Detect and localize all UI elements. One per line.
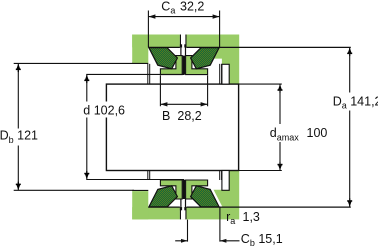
inner ring left piece bottom (L shape) [160, 180, 182, 199]
shaft cross-section rectangle [106, 84, 238, 170]
sleeve edge lines bottom right [220, 171, 222, 181]
roller bottom right [191, 186, 220, 207]
text mask Db [0, 129, 36, 146]
text mask Da [331, 93, 378, 111]
dimension d: reference lines [86, 74, 184, 179]
svg-text:Ca32,2: Ca32,2 [161, 0, 204, 15]
bottom notch thickened edge feet [180, 207, 182, 210]
svg-text:Cb 15,1: Cb 15,1 [241, 232, 283, 247]
roller top right [191, 48, 220, 69]
sleeve edge lines bottom left [148, 171, 150, 181]
left block bottom edge [132, 62, 148, 64]
dimension B: extension lines [160, 75, 207, 106]
bearing bottom slab (light green) [132, 207, 239, 219]
bottom notch side edges [180, 207, 186, 219]
text mask damax [268, 124, 326, 142]
dimension Ca: line with arrows [148, 16, 219, 18]
inner ring face ticks top [181, 47, 186, 55]
bottom slab top edge line + Da bottom reference line [148, 206, 350, 208]
top notch side edges [180, 35, 186, 48]
top center notch (white) [180, 35, 187, 48]
inner ring right piece bottom (L shape) [186, 180, 208, 199]
svg-text:d 102,6: d 102,6 [83, 103, 125, 117]
abutment step rect bottom right (white) [222, 171, 229, 191]
dimension d: vertical line with arrows [86, 74, 88, 179]
dimension B: line with arrows [160, 103, 207, 105]
dimension Db: vertical line with arrows [17, 63, 19, 190]
bearing left spacer block bottom [132, 191, 148, 219]
dimension Cb: extension lines [188, 207, 220, 241]
text mask d [82, 102, 126, 118]
dimension Ca: extension lines [148, 11, 219, 48]
bearing right wedge bottom [214, 190, 230, 207]
bearing left spacer block top [132, 35, 148, 64]
svg-text:Db 121: Db 121 [0, 129, 38, 145]
svg-text:Da 141,2: Da 141,2 [333, 94, 378, 110]
center gap bottom (black) [183, 180, 186, 199]
inner ring left piece top (L shape) [160, 56, 182, 75]
outer washer bottom edge line + Da top reference line [148, 46, 350, 48]
dimension damax: vertical line with arrows [279, 84, 281, 170]
bearing right housing column top [229, 47, 240, 84]
bearing outer washer top slab (light green) [132, 35, 239, 48]
abutment step rect top right (white) [222, 64, 229, 84]
center gap top (black) [183, 56, 186, 75]
roller bottom left [149, 186, 178, 207]
dimension Db: reference lines [14, 63, 134, 190]
inner ring face ticks bottom [181, 199, 186, 207]
left block top edge (bottom assembly) [132, 189, 148, 191]
bearing right housing column bottom [229, 171, 240, 208]
sleeve edge lines top right [220, 64, 222, 84]
top notch thickened edge feet [180, 44, 182, 47]
svg-text:B28,2: B28,2 [162, 109, 202, 123]
bearing right wedge top [213, 47, 230, 64]
dimension Da: vertical line with arrows [349, 47, 351, 207]
dimension damax: reference lines [239, 84, 282, 170]
inner ring right piece top (L shape) [186, 56, 208, 75]
sleeve edge lines top left [148, 64, 150, 84]
bottom center notch (white) [180, 207, 187, 219]
dimension Cb: tails with inward arrows [175, 240, 239, 242]
roller top left [149, 48, 178, 69]
